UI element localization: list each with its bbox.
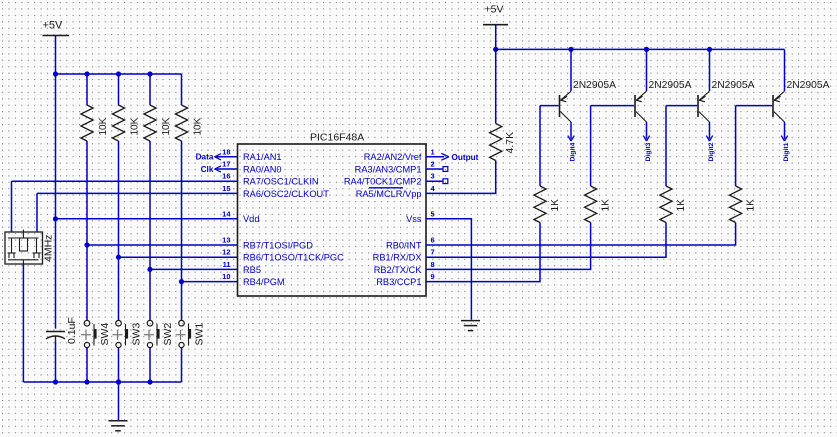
svg-text:PIC16F48A: PIC16F48A: [310, 132, 364, 144]
svg-text:Digit1: Digit1: [783, 142, 790, 161]
svg-text:13: 13: [222, 236, 230, 245]
svg-text:2N2905A: 2N2905A: [712, 80, 755, 91]
svg-text:9: 9: [431, 272, 435, 281]
svg-text:10K: 10K: [130, 117, 141, 135]
svg-text:18: 18: [222, 147, 230, 156]
svg-text:14: 14: [222, 209, 231, 218]
svg-text:1: 1: [431, 147, 435, 156]
svg-text:RA6/OSC2/CLKOUT: RA6/OSC2/CLKOUT: [243, 189, 329, 199]
svg-text:1K: 1K: [600, 199, 611, 212]
svg-text:15: 15: [222, 184, 230, 193]
svg-text:10K: 10K: [193, 117, 204, 135]
svg-text:5: 5: [431, 209, 435, 218]
svg-text:RA1/AN1: RA1/AN1: [243, 152, 282, 162]
svg-text:RB5: RB5: [243, 265, 261, 275]
svg-text:RB7/T1OSI/PGD: RB7/T1OSI/PGD: [243, 240, 313, 250]
svg-text:RA4/T0CK1/CMP2: RA4/T0CK1/CMP2: [344, 177, 422, 187]
svg-text:Digit2: Digit2: [708, 142, 715, 161]
svg-text:RB1/RX/DX: RB1/RX/DX: [373, 253, 422, 263]
svg-text:SW4: SW4: [99, 323, 111, 346]
svg-text:4MHz: 4MHz: [43, 235, 55, 262]
svg-text:Vdd: Vdd: [243, 214, 259, 224]
svg-text:RA3/AN3/CMP1: RA3/AN3/CMP1: [355, 164, 422, 174]
svg-text:Data: Data: [196, 153, 214, 162]
svg-text:RB6/T1OSO/T1CK/PGC: RB6/T1OSO/T1CK/PGC: [243, 253, 344, 263]
svg-text:RA5/MCLR/Vpp: RA5/MCLR/Vpp: [356, 189, 422, 199]
svg-text:12: 12: [222, 248, 230, 257]
svg-text:2N2905A: 2N2905A: [573, 80, 616, 91]
svg-text:1K: 1K: [676, 199, 687, 212]
svg-text:2N2905A: 2N2905A: [649, 80, 692, 91]
svg-text:Digit4: Digit4: [569, 142, 576, 161]
svg-text:RA0/AN0: RA0/AN0: [243, 164, 282, 174]
svg-text:RB3/CCP1: RB3/CCP1: [376, 277, 421, 287]
svg-text:2: 2: [431, 160, 435, 169]
svg-text:SW1: SW1: [194, 323, 206, 346]
svg-text:7: 7: [431, 248, 435, 257]
svg-text:1K: 1K: [550, 199, 561, 212]
svg-text:1K: 1K: [745, 199, 756, 212]
svg-text:Vss: Vss: [406, 214, 422, 224]
svg-text:RB2/TX/CK: RB2/TX/CK: [374, 265, 423, 275]
svg-text:Digit3: Digit3: [645, 142, 652, 161]
svg-text:10K: 10K: [98, 117, 109, 135]
svg-text:2N2905A: 2N2905A: [787, 80, 830, 91]
svg-text:SW2: SW2: [162, 323, 174, 346]
svg-text:4.7K: 4.7K: [504, 132, 516, 154]
svg-text:3: 3: [431, 172, 435, 181]
svg-text:17: 17: [222, 160, 230, 169]
svg-text:Output: Output: [452, 153, 479, 162]
svg-text:10: 10: [222, 272, 230, 281]
svg-text:11: 11: [223, 260, 231, 269]
svg-text:RA2/AN2/Vref: RA2/AN2/Vref: [364, 152, 422, 162]
svg-text:+5V: +5V: [43, 20, 64, 32]
svg-text:RB0/INT: RB0/INT: [386, 240, 422, 250]
svg-text:6: 6: [431, 236, 435, 245]
svg-text:SW3: SW3: [131, 323, 143, 346]
svg-text:RA7/OSC1/CLKIN: RA7/OSC1/CLKIN: [243, 177, 319, 187]
svg-text:Clk: Clk: [201, 165, 214, 174]
svg-text:16: 16: [222, 172, 230, 181]
svg-text:RB4/PGM: RB4/PGM: [243, 277, 285, 287]
svg-text:8: 8: [431, 260, 435, 269]
svg-text:10K: 10K: [161, 117, 172, 135]
svg-text:+5V: +5V: [485, 4, 504, 16]
svg-text:0.1uF: 0.1uF: [66, 317, 78, 344]
